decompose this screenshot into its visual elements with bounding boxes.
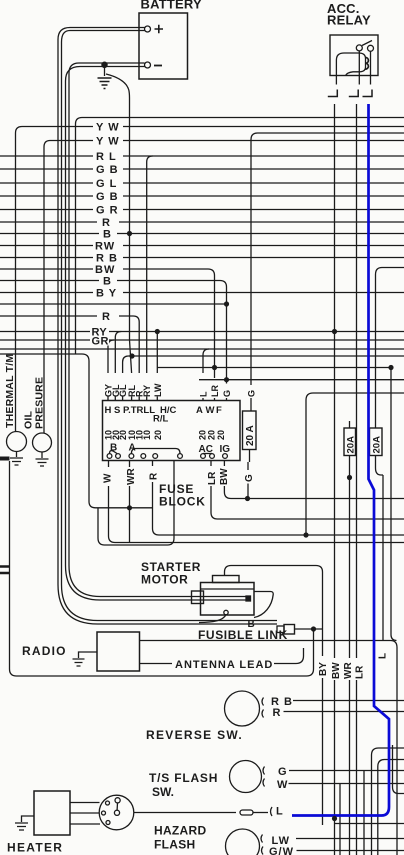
svg-text:WR: WR — [126, 468, 137, 485]
svg-text:B: B — [103, 229, 112, 241]
svg-text:LR: LR — [355, 665, 366, 679]
svg-text:20: 20 — [153, 430, 163, 440]
svg-text:20A: 20A — [346, 436, 357, 454]
svg-text:B: B — [103, 276, 112, 288]
svg-text:20: 20 — [207, 430, 217, 440]
svg-text:G: G — [247, 390, 257, 397]
svg-text:HAZARD: HAZARD — [154, 824, 206, 838]
svg-text:20: 20 — [216, 430, 226, 440]
svg-text:T/S FLASH: T/S FLASH — [149, 771, 218, 785]
svg-text:R: R — [102, 217, 111, 229]
svg-text:G: G — [278, 766, 288, 778]
svg-text:R L: R L — [96, 151, 117, 163]
svg-text:BW: BW — [331, 662, 342, 679]
svg-text:W: W — [277, 779, 288, 791]
svg-text:G B: G B — [96, 191, 119, 203]
svg-text:A: A — [196, 405, 203, 416]
svg-text:20A: 20A — [372, 436, 383, 454]
svg-text:HEATER: HEATER — [7, 841, 63, 855]
svg-text:L: L — [276, 806, 284, 818]
svg-text:R/L: R/L — [153, 414, 169, 425]
svg-text:W: W — [206, 405, 215, 416]
svg-text:G/W: G/W — [269, 846, 294, 855]
svg-text:LW: LW — [153, 383, 163, 397]
svg-text:10: 10 — [142, 430, 152, 440]
svg-text:G B: G B — [96, 164, 119, 176]
svg-text:BY: BY — [318, 662, 329, 676]
svg-text:LR: LR — [210, 385, 220, 397]
svg-text:W: W — [103, 473, 114, 483]
svg-text:B Y: B Y — [96, 288, 117, 300]
svg-text:FLASH: FLASH — [154, 838, 196, 852]
svg-text:G R: G R — [96, 205, 119, 217]
svg-text:Y W: Y W — [96, 136, 120, 148]
svg-text:AC: AC — [199, 444, 213, 455]
svg-text:BW: BW — [219, 468, 230, 485]
svg-text:ANTENNA LEAD: ANTENNA LEAD — [175, 659, 273, 671]
svg-text:R: R — [102, 311, 111, 323]
svg-text:R: R — [273, 707, 282, 719]
svg-text:REVERSE SW.: REVERSE SW. — [146, 728, 243, 742]
svg-text:Y W: Y W — [96, 122, 120, 134]
svg-text:G: G — [244, 474, 255, 482]
svg-text:RY: RY — [142, 385, 152, 397]
svg-text:R: R — [149, 472, 160, 480]
svg-text:PRESURE: PRESURE — [34, 377, 46, 429]
svg-text:G: G — [222, 390, 232, 397]
svg-text:BATTERY: BATTERY — [141, 0, 202, 12]
svg-text:GR: GR — [92, 336, 109, 348]
svg-text:LR: LR — [207, 471, 218, 485]
svg-text:WR: WR — [343, 662, 354, 679]
svg-text:B: B — [110, 443, 117, 454]
svg-text:G L: G L — [96, 178, 117, 190]
svg-text:R B: R B — [96, 253, 118, 265]
svg-text:A: A — [129, 443, 136, 454]
svg-text:F: F — [216, 405, 222, 416]
svg-text:20 A: 20 A — [245, 425, 256, 446]
svg-text:RELAY: RELAY — [327, 13, 371, 28]
svg-text:THERMAL T/M: THERMAL T/M — [4, 354, 16, 428]
svg-text:IG: IG — [220, 444, 231, 455]
svg-text:RADIO: RADIO — [22, 644, 67, 658]
svg-text:L: L — [199, 391, 209, 397]
svg-text:L: L — [378, 653, 389, 659]
svg-text:RW: RW — [95, 241, 115, 253]
svg-text:FUSIBLE LINK: FUSIBLE LINK — [198, 628, 288, 642]
svg-text:SW.: SW. — [152, 785, 174, 799]
svg-text:H S P.TRLL: H S P.TRLL — [105, 405, 156, 416]
svg-text:BW: BW — [95, 264, 115, 276]
svg-text:MOTOR: MOTOR — [141, 573, 188, 587]
svg-text:BLOCK: BLOCK — [159, 495, 206, 509]
